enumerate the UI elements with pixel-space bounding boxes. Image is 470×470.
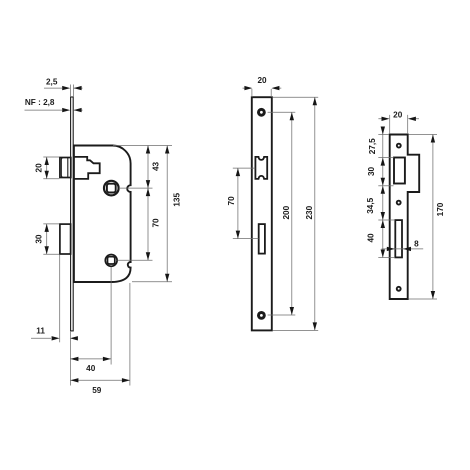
- chain bowtie at hole bottom: [381, 178, 385, 186]
- deadbolt head: [60, 224, 71, 254]
- plate top extension right: [409, 134, 438, 136]
- lock case outline: [74, 145, 131, 282]
- svg-text:70: 70: [227, 196, 236, 206]
- svg-text:20: 20: [393, 110, 403, 119]
- svg-text:34,5: 34,5: [366, 197, 375, 213]
- svg-text:230: 230: [305, 205, 314, 219]
- slot bottom extension: [378, 257, 395, 259]
- svg-text:30: 30: [367, 167, 376, 177]
- dim 20 arrows: [382, 117, 390, 121]
- case right extension line below: [129, 283, 131, 386]
- arrow left tip plate right: [74, 86, 82, 90]
- svg-text:59: 59: [92, 386, 102, 395]
- follower 2 centerline: [118, 259, 153, 261]
- dim 2,5 leader: [44, 87, 83, 89]
- latch tail inside case: [74, 157, 100, 179]
- dim 20 extension lines: [252, 89, 271, 97]
- arrow right: [62, 108, 70, 112]
- dim 170 line: [432, 135, 434, 300]
- svg-text:27,5: 27,5: [368, 138, 377, 154]
- dim 20 arrows: [244, 86, 252, 90]
- follower 2 extension line below: [110, 267, 112, 365]
- dim 11 leader: [31, 337, 51, 339]
- follower 1 centerline: [119, 187, 153, 189]
- dim 70 arrows: [146, 188, 150, 196]
- strike latch hole: [394, 158, 405, 184]
- svg-text:NF : 2,8: NF : 2,8: [25, 98, 55, 107]
- faceplate extension lines above: [71, 85, 74, 98]
- dim 20 arrows: [45, 157, 49, 165]
- faceplate front outline: [252, 97, 272, 330]
- dim 40 line: [70, 358, 111, 360]
- svg-text:135: 135: [173, 193, 182, 207]
- case top extension line: [113, 145, 172, 147]
- chain dim line: [382, 127, 384, 258]
- hole top extension: [378, 157, 393, 159]
- dim 135 line: [166, 146, 168, 282]
- follower 2 circle: [105, 255, 117, 267]
- dim 135 arrows: [165, 146, 169, 154]
- dim 230 arrows: [313, 97, 317, 105]
- arrow left: [74, 108, 82, 112]
- slot centre extension line: [233, 238, 259, 240]
- strike plate outline: [390, 135, 420, 300]
- dim 59 arrows: [70, 378, 78, 382]
- latch bevel inner lines: [61, 158, 68, 178]
- dim 20 line: [46, 157, 48, 179]
- follower 2 square: [108, 257, 115, 264]
- faceplate bar (side): [71, 97, 74, 331]
- svg-text:20: 20: [257, 76, 267, 85]
- svg-text:2,5: 2,5: [46, 77, 58, 86]
- hole bottom extension: [378, 185, 393, 187]
- dim 20 extension lines: [390, 115, 408, 134]
- chain arrow at plate top: [381, 127, 385, 135]
- svg-text:70: 70: [152, 218, 161, 228]
- dim 20 leader: [243, 87, 282, 89]
- top screw hole: [259, 109, 265, 115]
- strike screw hole middle: [397, 201, 401, 205]
- follower cutout: [255, 157, 267, 179]
- svg-text:170: 170: [436, 202, 445, 216]
- svg-text:200: 200: [282, 205, 291, 219]
- dim 70 arrows: [236, 168, 240, 176]
- svg-text:43: 43: [151, 162, 160, 172]
- arrow right tip plate left: [62, 86, 70, 90]
- bottom screw hole: [259, 313, 265, 319]
- dim 230 line: [314, 97, 316, 330]
- svg-text:11: 11: [36, 327, 45, 336]
- plate top extension left: [378, 134, 389, 136]
- dim 170 arrows: [431, 135, 435, 143]
- plate top/bottom extension lines: [273, 97, 319, 330]
- dim 40 arrows: [70, 357, 78, 361]
- deadbolt face extension line: [59, 255, 61, 342]
- chain bowtie at slot top: [381, 212, 385, 220]
- dim 30 arrows: [45, 224, 49, 232]
- strike screw hole bottom: [397, 287, 401, 291]
- svg-text:20: 20: [35, 163, 44, 173]
- plate bottom extension right: [409, 298, 438, 300]
- svg-text:30: 30: [35, 234, 44, 244]
- svg-text:40: 40: [366, 233, 375, 243]
- cutout centre extension line: [233, 167, 256, 169]
- dim 8 arrows: [387, 247, 395, 251]
- follower 1 circle: [104, 181, 119, 196]
- svg-text:8: 8: [414, 240, 419, 249]
- dim 200 line: [291, 112, 293, 315]
- faceplate extension line below: [69, 332, 71, 386]
- dim 59 line: [70, 379, 129, 381]
- chain arrow at slot bottom: [381, 250, 385, 258]
- strike screw hole top: [397, 144, 401, 148]
- dim 30 extension lines: [43, 224, 59, 254]
- case bottom extension line: [132, 281, 172, 283]
- dim 8 leader: [382, 248, 424, 250]
- follower 1 square: [107, 184, 116, 193]
- dim 43 arrows: [146, 146, 150, 154]
- svg-text:40: 40: [86, 364, 96, 373]
- chain arrow at hole top: [381, 158, 385, 166]
- dim 200 arrows: [290, 112, 294, 120]
- dim 20 extension lines: [43, 157, 59, 179]
- dim 70 line: [237, 168, 239, 239]
- latch bolt head: [60, 158, 71, 178]
- dim 2,8 leader: [25, 109, 83, 111]
- dim 20 leader: [378, 118, 419, 120]
- screw hole centrelines: [268, 112, 296, 315]
- strike deadbolt slot: [395, 220, 402, 257]
- dim 11 arrows: [52, 336, 60, 340]
- dim 30 line: [46, 224, 48, 254]
- slot top extension: [378, 219, 395, 221]
- dim 43/70 line: [147, 146, 149, 261]
- latch slot: [259, 224, 265, 254]
